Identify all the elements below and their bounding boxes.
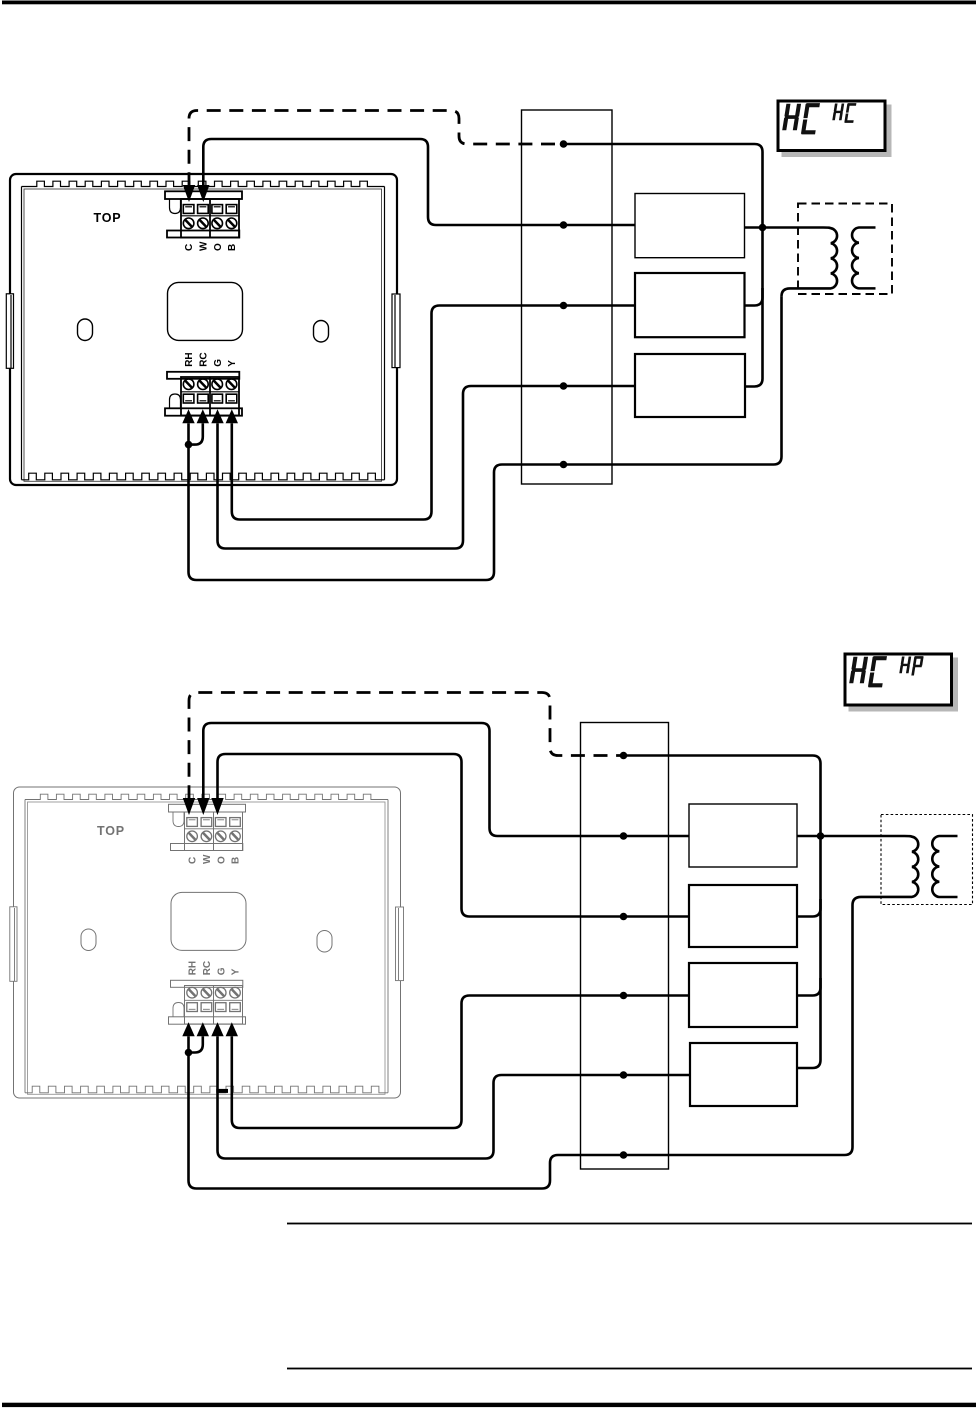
- arrow into top terminal 2 x=217.5: [211, 798, 223, 815]
- wire C2 solid to relays: [624, 756, 821, 1069]
- arrow into top terminal x=189: [183, 185, 195, 202]
- arrow into bottom terminal x=202.8: [197, 409, 209, 423]
- svg-text:B: B: [227, 244, 238, 251]
- junction dot (563.5,464.5): [560, 461, 568, 469]
- svg-text:Y: Y: [231, 968, 242, 975]
- svg-text:RC: RC: [199, 352, 210, 366]
- arrow into bottom terminal x=217.5: [211, 409, 223, 423]
- plate left side clip: [10, 907, 17, 982]
- plate bottom crenellation: [22, 473, 385, 480]
- plate right side clip: [396, 907, 404, 981]
- plate central opening: [171, 892, 246, 950]
- plate right side clip: [392, 294, 400, 368]
- plate top crenellation: [22, 181, 385, 186]
- arrow into top terminal x=203.3: [197, 185, 209, 202]
- arrow into bottom terminal 2 x=188.5: [182, 1022, 194, 1036]
- arrow into top terminal 2 x=203.3: [197, 798, 209, 815]
- display LCD1 heat-cool: [778, 101, 892, 157]
- junction dot (563.5,144): [560, 140, 568, 148]
- svg-text:TOP: TOP: [94, 211, 122, 225]
- svg-text:G: G: [216, 967, 227, 975]
- arrow into bottom terminal 2 x=231.8: [226, 1022, 238, 1036]
- wire relay K6 right stub: [797, 978, 821, 996]
- terminal block bottom (RH RC G Y): [165, 372, 242, 416]
- relay K5: [689, 885, 797, 947]
- svg-text:O: O: [213, 243, 224, 251]
- junction dot (623.5,1075): [620, 1071, 628, 1079]
- plate central opening: [168, 282, 243, 340]
- wire W1: [203, 139, 635, 225]
- wire relay K5 right stub: [797, 899, 821, 917]
- wire Y2: [232, 996, 689, 1129]
- arrow into bottom terminal 2 x=202.8: [197, 1022, 209, 1036]
- black tooth mark at G wire crossing: [216, 1089, 228, 1093]
- wire R2 (transformer to RH): [189, 905, 853, 1189]
- plate inner recess line: [28, 802, 386, 1094]
- terminal block bottom (RH RC G Y): [169, 980, 246, 1024]
- terminal strip 2: [581, 723, 669, 1170]
- note separator rule 2: [287, 1368, 972, 1370]
- junction dot (188.5,1052.5): [185, 1049, 193, 1057]
- plate bottom crenellation: [25, 1086, 388, 1093]
- plate top crenellation: [25, 794, 388, 799]
- relay K3: [635, 354, 745, 417]
- terminal block top (C W O B): [165, 191, 242, 237]
- junction dot (563.5,386): [560, 382, 568, 390]
- svg-text:G: G: [213, 359, 224, 367]
- transformer T2 dashed box: [881, 815, 973, 905]
- wire G1: [218, 386, 636, 549]
- transformer T2 secondary coil: [932, 836, 957, 897]
- plate inner left edge: [24, 800, 26, 1093]
- transformer T1 primary wire and coil: [745, 228, 838, 297]
- plate inner left edge: [21, 187, 23, 480]
- terminal block top (C W O B): [169, 804, 246, 850]
- wire R1 (transformer to RH): [189, 296, 782, 580]
- svg-text:RH: RH: [184, 352, 195, 366]
- junction dot (623.5,755.5): [620, 752, 628, 760]
- svg-text:W: W: [199, 241, 210, 251]
- page bottom rule: [2, 1403, 976, 1407]
- arrow into bottom terminal x=231.8: [226, 409, 238, 423]
- left mounting hole: [78, 319, 93, 341]
- left mounting hole: [81, 929, 96, 951]
- page top rule: [2, 1, 976, 5]
- relay K1: [635, 194, 745, 258]
- wire Y1: [232, 306, 635, 520]
- plate inner right edge: [384, 187, 386, 480]
- svg-text:RC: RC: [202, 961, 213, 975]
- thermostat wall plate outline (black): [10, 174, 397, 485]
- junction dot (623.5,995.5): [620, 992, 628, 1000]
- wire C1 solid to relays: [564, 144, 763, 387]
- display LCD2 heat-pump: [845, 654, 958, 712]
- junction dot (820.5,836): [817, 832, 825, 840]
- wire C1 dashed (thermostat C over top): [189, 111, 564, 187]
- wire W2: [203, 723, 689, 836]
- svg-text:C: C: [184, 244, 195, 251]
- svg-text:Y: Y: [227, 360, 238, 367]
- relay K6: [689, 963, 797, 1027]
- transformer T1 secondary coil: [852, 228, 875, 289]
- svg-text:W: W: [202, 854, 213, 864]
- junction dot (623.5,1155): [620, 1151, 628, 1159]
- terminal strip 1: [522, 110, 613, 484]
- plate left side clip: [6, 294, 13, 369]
- wire G2: [218, 1036, 690, 1158]
- right mounting hole: [317, 931, 332, 953]
- arrow into bottom terminal 2 x=217.5: [211, 1022, 223, 1036]
- junction dot (762.5,227.5): [759, 224, 767, 232]
- relay K7: [690, 1043, 797, 1106]
- svg-text:B: B: [231, 857, 242, 864]
- wire O2: [218, 754, 690, 917]
- svg-text:C: C: [188, 857, 199, 864]
- svg-text:RH: RH: [188, 961, 199, 975]
- arrow into bottom terminal x=188.5: [182, 409, 194, 423]
- junction dot (623.5,916.5): [620, 913, 628, 921]
- wire relay K2 right stub: [745, 288, 763, 306]
- relay K2: [635, 273, 745, 337]
- right mounting hole: [314, 321, 329, 343]
- relay K4: [689, 804, 797, 867]
- arrow into top terminal 2 x=189: [183, 798, 195, 815]
- svg-text:TOP: TOP: [97, 824, 125, 838]
- wire RH-RC jumper 2: [189, 1036, 203, 1052]
- wire C2 dashed: [189, 693, 624, 800]
- svg-text:O: O: [216, 856, 227, 864]
- transformer T1 dashed box: [798, 204, 892, 295]
- junction dot (623.5,836): [620, 832, 628, 840]
- junction dot (563.5,225): [560, 221, 568, 229]
- thermostat wall plate outline (gray): [14, 787, 401, 1098]
- junction dot (563.5,305.5): [560, 302, 568, 310]
- transformer T2 primary wire and coil: [797, 836, 918, 905]
- plate inner recess line: [24, 189, 382, 481]
- wire RH-RC jumper 1: [189, 423, 203, 444]
- note separator rule 1: [287, 1223, 972, 1225]
- plate inner right edge: [387, 800, 389, 1093]
- junction dot (188.5,444.6): [185, 441, 193, 449]
